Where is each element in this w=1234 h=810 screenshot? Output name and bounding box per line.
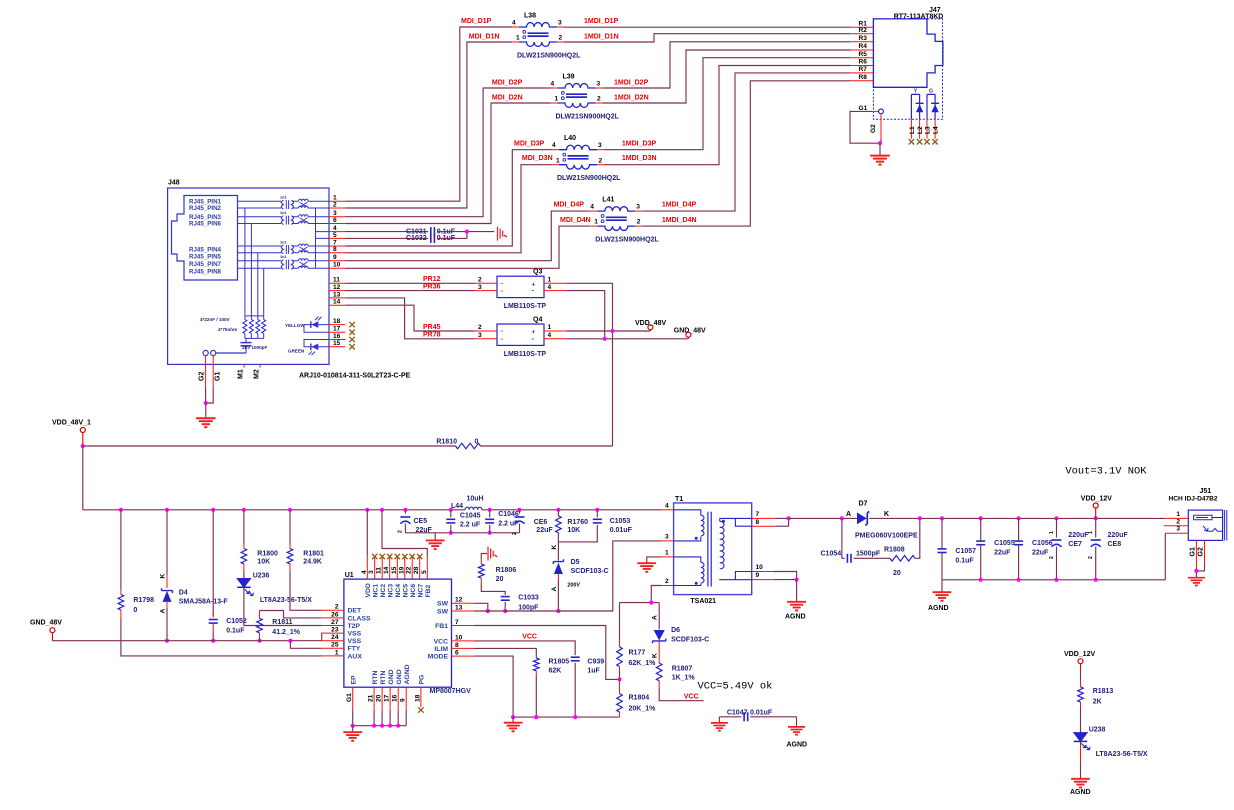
svg-text:2: 2 [665,578,669,585]
svg-text:1n1: 1n1 [280,255,287,259]
wire C1032 join [437,232,467,239]
svg-text:VDD_48V: VDD_48V [635,320,666,327]
J48 internal transformer T2 [238,217,282,224]
svg-text:G1: G1 [1190,547,1197,556]
J51 pin 1 [1165,517,1188,519]
wire SW net [474,541,662,611]
svg-text:RJ45_PIN7: RJ45_PIN7 [189,261,222,268]
U1 right pin 10 (VCC) [452,640,475,642]
choke L40 pin2 stub [597,164,604,166]
svg-text:K: K [884,511,889,518]
svg-text:GND_48V: GND_48V [30,620,62,627]
svg-text:12: 12 [333,284,341,291]
choke L38 pin3 stub [557,26,564,28]
no-connect X on U1 pin 3 [372,554,377,559]
choke L40 pin3 stub [597,149,604,151]
svg-text:VCC: VCC [434,638,448,645]
Q4 pin3 [475,338,498,340]
resistor R1801 [287,549,293,564]
svg-text:3: 3 [478,332,482,339]
U1 top pin 11 (NC2) [381,556,383,579]
svg-text:RTN: RTN [372,670,379,684]
svg-text:1MDI_D4P: 1MDI_D4P [662,202,697,209]
U1 right pin 12 (SW) [452,602,475,604]
junction snubber A [840,516,844,520]
wire bus to C1045 [450,510,452,518]
svg-text:G: G [929,89,933,95]
LED U236 [237,579,250,588]
svg-text:4*75ohm: 4*75ohm [218,327,237,332]
svg-text:1MDI_D3P: 1MDI_D3P [622,141,657,148]
choke L38 pin1 stub [512,41,519,43]
J48 pin 17 [329,331,346,333]
svg-text:L41: L41 [602,197,614,204]
diode D7 [857,513,867,525]
choke L38 pin2 stub [557,41,564,43]
J48 pin 14 [329,304,346,306]
J48 pin 8 [329,252,346,254]
wire C1052 to GND rail [212,623,214,630]
svg-text:10uH: 10uH [467,495,484,502]
junction GND_48V [603,337,607,341]
svg-text:1n1: 1n1 [280,196,287,200]
wire T1 pin2 to D6/R177 node [651,586,661,603]
bus junction [449,508,453,512]
svg-text:J48: J48 [168,180,180,187]
no-connect X on U1 pin 19 [402,554,407,559]
wire MDI_D4P (J48 pin9 to L41) [346,211,591,261]
bus junction [517,508,521,512]
wire VDD_48V_1 down to bus [82,446,84,510]
wire FB1 [474,626,620,680]
T1 secondary taps [735,518,751,526]
no-connect X on J48 pin 16 [349,337,354,342]
resistor R1798 [120,590,122,595]
capacitor CE5 [400,516,410,518]
svg-text:C1056: C1056 [1032,540,1053,547]
svg-text:ARJ10-010814-311-S0L2T23-C-PE: ARJ10-010814-311-S0L2T23-C-PE [299,373,411,380]
no-connect X on U1 pin 18 PG [418,707,423,712]
wire PR78 (J48 pin13 to Q4) [346,298,475,339]
U1 top pin 28 (NC7) [419,556,421,579]
svg-text:R1808: R1808 [884,547,905,554]
wire MDI_D2P (J48 pin3 to L39) [346,88,551,217]
svg-text:PMEG060V100EPE: PMEG060V100EPE [855,533,918,540]
U1 right pin 8 (ILIM) [452,647,475,649]
svg-text:D7: D7 [859,501,868,508]
U1 top pin 15 (NC4) [396,556,398,579]
svg-text:0.1uF: 0.1uF [955,557,974,564]
choke L41 body [597,207,635,211]
svg-text:CE7: CE7 [1068,541,1082,548]
resistor R1807 [658,641,660,663]
capacitor C1045 [446,518,455,520]
svg-text:1K_1%: 1K_1% [672,675,696,682]
wire Q4 minus output to GND_48V [567,338,689,340]
svg-text:1: 1 [555,96,559,103]
wire C939 down [574,663,576,717]
svg-text:T1: T1 [675,496,683,503]
svg-text:15: 15 [333,340,341,347]
T1 core [707,512,709,587]
Q4 pin1 [544,330,567,332]
wire Q3 plus output [567,283,613,446]
svg-text:4: 4 [512,19,516,26]
resistor R1760 [556,516,562,533]
svg-text:22: 22 [406,566,413,574]
svg-text:4: 4 [548,284,552,291]
svg-text:MDI_D4N: MDI_D4N [560,217,591,224]
Q3 pin2 [475,282,498,284]
ground symbol C1047 right (AGND) [796,717,798,727]
svg-text:C1057: C1057 [955,548,976,555]
svg-text:1MDI_D3N: 1MDI_D3N [622,155,657,162]
choke L38 body [519,23,557,27]
svg-text:LT8A23-56-T5/X: LT8A23-56-T5/X [1096,751,1148,758]
wire C1053 to K node [558,525,597,542]
wire ILIM to R1805 [474,648,536,658]
wire U236 to T2P pin [244,588,322,626]
svg-text:SCDF103-C: SCDF103-C [571,568,609,575]
wire GND rail [52,640,321,642]
J48 capacitor 1000pF [245,338,247,342]
svg-text:PR12: PR12 [423,276,441,283]
svg-text:R8: R8 [859,74,868,81]
wire MDI_D1P (J48 pin1 to L38) [346,27,513,201]
svg-text:MDI_D3P: MDI_D3P [514,141,545,148]
svg-text:2: 2 [1049,556,1055,559]
svg-text:R4: R4 [859,43,868,50]
svg-text:VCC: VCC [522,634,537,641]
ground symbol U1 [352,726,354,732]
svg-text:17: 17 [333,326,341,333]
svg-text:15: 15 [391,566,398,574]
svg-text:62K_1%: 62K_1% [629,660,657,667]
svg-text:CE8: CE8 [1108,541,1122,548]
wire Q4 plus output to VDD_48V [567,330,651,332]
diode bridge Q3 body [497,276,544,297]
Q4 pin2 [475,330,498,332]
choke L41 pin4 stub [590,210,597,212]
resistor R1808 [890,556,915,562]
wire J48 shield to G1 circle [216,352,246,354]
choke L41 pin2 stub [635,225,642,227]
no-connect X on U1 pin 22 [410,554,415,559]
wire R1801 to DET pin [289,564,291,571]
svg-text:0.01uF: 0.01uF [750,710,773,717]
wire 1MDI_D2N (L39 to J47 R4) [603,50,851,103]
T1 pin 4 [662,509,674,511]
junction C1031/C1032 [465,230,469,234]
wire D4 to GND rail [166,602,168,608]
wire J47 G2 to ground [880,139,882,143]
junction J47 ground [878,141,882,145]
wire R1808 up to rail [915,518,920,558]
svg-text:R177: R177 [629,650,646,657]
J48 G1 lead [212,356,214,389]
svg-text:1: 1 [1088,531,1094,534]
svg-text:G2: G2 [870,124,877,133]
svg-text:1: 1 [548,324,552,331]
wire snubber down [842,518,845,558]
resistor R1813 [1078,687,1084,702]
choke L39 pin3 stub [596,87,603,89]
J48 internal transformer T4 [238,261,282,269]
svg-text:5: 5 [421,570,428,574]
capacitor C1047 strap [719,716,741,718]
wire J48 pin4 to C1031 [346,231,429,233]
svg-text:10: 10 [756,564,764,571]
wire C1031 to chassis ground [437,231,494,233]
diode D5 [557,542,559,561]
Q3 pin4 [544,290,567,292]
choke L41 pin3 stub [635,210,642,212]
svg-text:6: 6 [455,650,459,657]
wire output bottom rail [942,579,1165,581]
J48 capacitor/resistor bank [245,315,264,317]
svg-text:VDD_48V_1: VDD_48V_1 [52,419,91,426]
choke L39 body [558,84,596,88]
J48 pin M2 [259,364,261,367]
svg-text:YELLOW: YELLOW [285,323,305,328]
svg-text:GREEN: GREEN [288,349,305,354]
ground symbol J47 [879,143,881,155]
T1 pin 3 [662,540,674,542]
svg-text:3: 3 [1176,526,1180,533]
svg-text:PG: PG [419,675,426,685]
svg-text:MDI_D1N: MDI_D1N [469,34,500,41]
svg-text:4: 4 [548,332,552,339]
wire VSS bracket [320,633,322,641]
svg-text:0: 0 [475,438,479,445]
U1 top pin 22 (NC6) [411,556,413,579]
bus junction [242,508,246,512]
svg-text:22uF: 22uF [536,527,553,534]
svg-text:RJ45_PIN6: RJ45_PIN6 [189,221,222,228]
svg-text:R1813: R1813 [1093,688,1114,695]
svg-text:11: 11 [333,277,340,284]
wire R1807 to VCC [659,688,704,701]
svg-text:R2: R2 [859,27,868,34]
svg-text:K: K [652,653,659,658]
U1 bottom pin 16 (GND) [397,687,399,710]
svg-text:220uF: 220uF [1068,532,1089,539]
wire J48 shield to ground [205,388,207,404]
capacitor CE8 [1094,516,1098,520]
svg-text:NC6: NC6 [410,584,417,598]
svg-text:1n1: 1n1 [280,241,287,245]
svg-text:8: 8 [333,246,337,253]
wire J47 G1 to ground [850,111,878,143]
svg-text:20: 20 [376,694,383,702]
wire bus to CE6 [519,510,521,514]
bus junction [556,508,560,512]
svg-text:LMB110S-TP: LMB110S-TP [504,351,547,358]
U1 right pin 7 (FB1) [452,625,475,627]
svg-text:6: 6 [333,217,337,224]
wire MDI_D4N (J48 pin10 to L41) [346,226,591,268]
svg-text:R3: R3 [859,35,868,42]
svg-text:SCDF103-C: SCDF103-C [671,636,709,643]
U1 bottom pin G1 (EP) [352,687,354,710]
svg-text:L1: L1 [909,126,916,134]
svg-text:RJ45_PIN5: RJ45_PIN5 [189,254,222,261]
svg-text:100pF: 100pF [518,604,539,611]
svg-text:TSA021: TSA021 [690,598,716,605]
svg-text:1uF: 1uF [587,668,600,675]
ground symbol J48 shield [205,403,207,418]
T1 primary winding bottom [674,557,701,562]
svg-text:ILIM: ILIM [434,646,448,653]
T1 pin 9 [752,579,774,581]
wire 1MDI_D1N (L38 to J47 R2) [564,34,851,42]
svg-text:MODE: MODE [428,654,449,661]
wire R1806 to C1033 [480,578,482,583]
svg-text:AGND: AGND [785,614,806,621]
J48 internal tap wires to capacitor bank [244,208,246,316]
svg-text:R1804: R1804 [629,695,650,702]
bus junction [595,508,599,512]
T1 pin 7 [752,517,775,519]
svg-text:VCC: VCC [684,693,699,700]
no-connect X on U1 pin 15 [395,554,400,559]
svg-text:13: 13 [455,604,463,611]
svg-text:RTN: RTN [380,670,387,684]
svg-text:MDI_D2N: MDI_D2N [492,95,523,102]
wire 1MDI_D2P (L39 to J47 R3) [603,42,851,88]
svg-text:C1045: C1045 [460,513,481,520]
junction VDD_48V_1 [81,444,85,448]
connector J47 jack body [873,19,943,87]
no-connect X on U1 pin 14 [387,554,392,559]
svg-text:2: 2 [637,219,641,226]
svg-text:U236: U236 [253,572,270,579]
choke L40 pin1 stub [552,164,559,166]
wire U1 VDD to bus [366,510,368,556]
svg-text:Vout=3.1V NOK: Vout=3.1V NOK [1065,465,1147,477]
svg-text:R1798: R1798 [133,597,154,604]
J48 pin 2 [329,207,346,209]
svg-text:10: 10 [455,634,463,641]
bus junction [380,508,384,512]
J48 internal choke 3 [292,246,299,253]
svg-text:1MDI_D1N: 1MDI_D1N [584,34,619,41]
svg-text:62K: 62K [549,668,562,675]
J48 pin 13 [329,297,346,299]
wire C1045 down [450,525,452,533]
svg-text:1MDI_D2P: 1MDI_D2P [614,79,649,86]
svg-text:R7: R7 [859,66,868,73]
svg-text:27: 27 [331,619,339,626]
svg-text:9: 9 [756,572,760,579]
T1 secondary winding [720,518,736,521]
svg-text:Q4: Q4 [533,316,542,323]
capacitor C1053 [593,518,602,520]
wire R1811 to GND rail [259,638,261,641]
svg-text:4: 4 [665,502,669,509]
diode bridge Q4 body [497,324,544,345]
inductor L44 [465,507,482,510]
svg-text:3: 3 [597,80,601,87]
svg-text:U1: U1 [345,572,354,579]
J47 pin R7 [851,72,874,74]
bus junction [488,508,492,512]
svg-text:18: 18 [414,694,421,702]
capacitor C1054 [846,554,848,563]
svg-text:41.2_1%: 41.2_1% [272,629,300,636]
J48 pin 6 [329,223,346,225]
svg-text:18: 18 [333,318,341,325]
svg-text:0.1uF: 0.1uF [226,627,245,634]
svg-text:10: 10 [333,262,341,269]
svg-text:GND: GND [396,669,403,684]
wire bus to R1760 [557,510,559,516]
U1 top pin 19 (NC5) [404,556,406,579]
J47 LED pin L2 [919,119,921,139]
svg-text:10K: 10K [257,559,270,566]
wire CE5 down [404,524,406,533]
capacitor C939 [571,656,580,658]
J47 pin R4 [851,49,874,51]
svg-text:1MDI_D2N: 1MDI_D2N [614,95,649,102]
wire D7 cathode rail [869,517,1165,519]
svg-text:PR45: PR45 [423,324,441,331]
Q3 pin1 [544,282,567,284]
svg-text:A: A [652,615,659,620]
J51 tip contact [1194,515,1212,520]
wire J48 pin5 to C1032 [346,237,429,239]
ground symbol VCC divider [512,717,514,722]
svg-text:VDD_12V: VDD_12V [1064,651,1095,658]
svg-text:24.9K: 24.9K [303,559,322,566]
U1 bottom pin 18 (PG) [420,687,422,707]
svg-text:R1807: R1807 [672,666,693,673]
svg-text:2: 2 [478,277,482,284]
svg-text:R1801: R1801 [303,550,324,557]
svg-text:13: 13 [333,291,341,298]
svg-text:2: 2 [1088,556,1094,559]
J47 pin R2 [851,33,874,35]
svg-text:20: 20 [893,570,901,577]
IC U1 body [344,579,452,687]
svg-text:MDI_D4P: MDI_D4P [554,202,585,209]
capacitor C1052 [209,619,218,621]
J48 pin 16 [329,339,346,341]
svg-text:SW: SW [437,608,449,615]
choke L40 body [559,145,597,149]
transformer T1 body [674,503,752,595]
wire PR36 [346,290,475,292]
svg-text:2.2 uF: 2.2 uF [460,521,481,528]
ground symbol CE filter [434,533,436,540]
U1 left pin 23 (VSS) [321,632,344,634]
svg-text:L40: L40 [564,135,576,142]
U1 top pin 14 (NC3) [389,556,391,579]
capacitor C1031 [430,227,432,236]
svg-text:11: 11 [376,567,383,574]
T1 primary winding top [674,510,701,515]
U1 bottom pin 21 (RTN) [373,687,375,710]
Q4 pin4 [544,338,567,340]
resistor R1810 [456,443,481,449]
wire VDD_12V to R1813 [1080,668,1082,682]
J48 internal transformer T3 [238,246,282,253]
wire U238 to AGND [1080,741,1082,746]
svg-text:1: 1 [1176,511,1180,518]
svg-text:J51: J51 [1200,488,1212,495]
wire PR12 [346,282,475,284]
U1 left pin 27 (T2P) [321,625,344,627]
